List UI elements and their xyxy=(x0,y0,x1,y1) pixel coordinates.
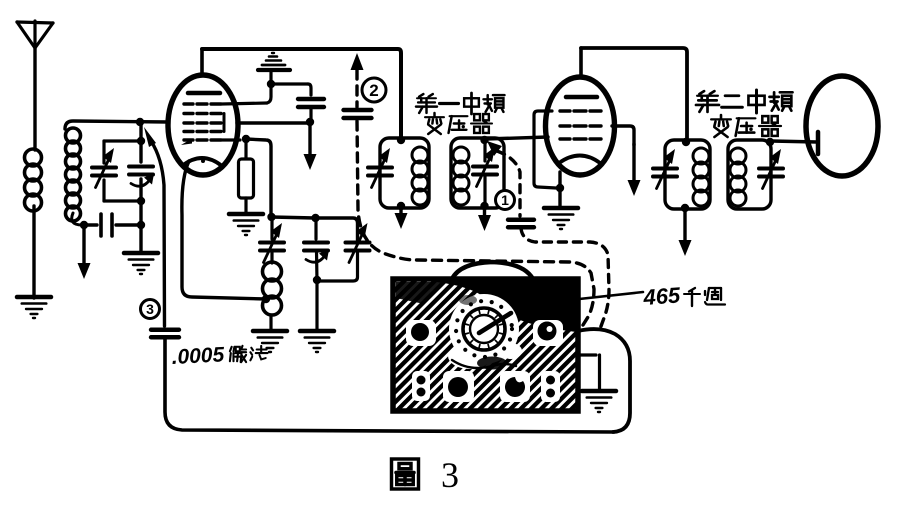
capacitor T2 secondary varcap xyxy=(759,149,783,189)
IF transformer T1 secondary box xyxy=(451,138,504,208)
marker circle 3 xyxy=(141,300,160,319)
ground V2 xyxy=(544,208,578,229)
coil L2 tuning coil xyxy=(66,128,83,225)
ground R1 xyxy=(229,214,263,235)
wire generator ground xyxy=(578,355,600,391)
coil T1 primary xyxy=(412,147,428,205)
leader line 465 xyxy=(570,292,643,300)
coil T1 secondary xyxy=(453,147,469,205)
tube V1 pentagrid converter xyxy=(168,49,238,175)
ground generator xyxy=(582,391,616,412)
wire T2 to V3 xyxy=(771,141,817,142)
label 465 kc xyxy=(642,282,725,310)
capacitor C1 main tuning xyxy=(92,141,116,201)
coil T2 primary xyxy=(693,148,709,206)
arrow T2 pri B+ xyxy=(679,210,692,256)
wire grid top xyxy=(65,121,308,129)
chassis ground inverted xyxy=(258,53,290,84)
wire grid1 lead xyxy=(222,87,271,104)
capacitor T1 secondary varcap xyxy=(473,138,497,208)
ground tuned circuit xyxy=(124,253,158,274)
node T1 pri bottom xyxy=(397,202,405,210)
svg-text:.0005: .0005 xyxy=(171,343,225,369)
wire V2 grid return xyxy=(534,111,556,188)
svg-text:465: 465 xyxy=(642,282,682,310)
wire plate bus xyxy=(202,49,401,138)
dashed injection path 2 xyxy=(344,53,595,325)
resistor R1 xyxy=(222,135,254,214)
tube V2 IF amplifier xyxy=(546,48,615,175)
IF transformer T2 secondary box xyxy=(728,140,771,209)
node T1 sec bottom xyxy=(480,202,488,210)
node T2 pri top xyxy=(682,138,690,146)
signal generator xyxy=(393,262,578,411)
coil T2 secondary xyxy=(730,148,746,206)
node B screen node xyxy=(267,80,275,88)
coil L3 oscillator xyxy=(263,262,282,331)
label T1 first IF transformer xyxy=(416,93,505,134)
node T2 pri bottom xyxy=(681,204,689,212)
wire osc node xyxy=(267,213,357,240)
capacitor C7 osc padder xyxy=(317,223,370,281)
marker circle 2 xyxy=(362,78,386,102)
svg-text:2: 2 xyxy=(369,81,378,100)
arrow T1 sec down xyxy=(478,208,491,231)
wire V2 plate xyxy=(581,48,687,139)
label .0005 microfarad xyxy=(171,343,267,369)
capacitor C2 trimmer xyxy=(129,121,154,253)
wire injection 3 xyxy=(144,127,165,326)
svg-text:1: 1 xyxy=(501,192,509,208)
capacitor C5 osc tuning xyxy=(260,218,284,263)
wire cathode tap xyxy=(182,161,266,299)
dashed injection path 1 xyxy=(487,141,609,329)
capacitor C8 injection .0005 xyxy=(151,330,614,432)
node T1 pri top xyxy=(397,136,405,144)
capacitor T1 primary varcap xyxy=(368,148,392,188)
svg-text:3: 3 xyxy=(441,455,459,495)
capacitor C4 screen bypass xyxy=(271,84,324,120)
capacitor C6 osc trimmer xyxy=(304,218,329,331)
svg-text:3: 3 xyxy=(146,301,154,317)
node T2 sec top xyxy=(766,138,774,146)
arrow V2 screen xyxy=(612,126,641,196)
ground L3 xyxy=(253,331,287,352)
ground C6 xyxy=(300,331,334,352)
coil L1 antenna coil xyxy=(25,149,42,298)
tube V3 xyxy=(806,76,878,176)
caption figure 3 xyxy=(392,455,460,495)
IF transformer T1 primary box xyxy=(380,138,429,208)
arrow screen B+ xyxy=(304,124,317,170)
IF transformer T2 primary box xyxy=(665,140,710,209)
capacitor C3 padder xyxy=(80,214,145,236)
antenna xyxy=(17,21,53,150)
wire V2 cathode xyxy=(556,172,564,208)
wire osc feed xyxy=(246,139,271,214)
label T2 second IF transformer xyxy=(696,90,793,137)
wire T1 to V2 xyxy=(485,137,548,139)
ground antenna xyxy=(17,297,51,318)
arrow AVC down xyxy=(78,228,91,279)
wire C1 branch xyxy=(104,137,145,205)
marker circle 1 xyxy=(496,191,515,210)
wire generator loop xyxy=(578,329,630,432)
node T1 sec top xyxy=(480,136,488,144)
node C xyxy=(306,118,314,126)
arrow T1 pri B+ xyxy=(395,208,408,229)
node D osc tap xyxy=(262,295,270,303)
node A grid junction xyxy=(136,118,144,126)
capacitor T2 primary varcap xyxy=(653,149,677,189)
